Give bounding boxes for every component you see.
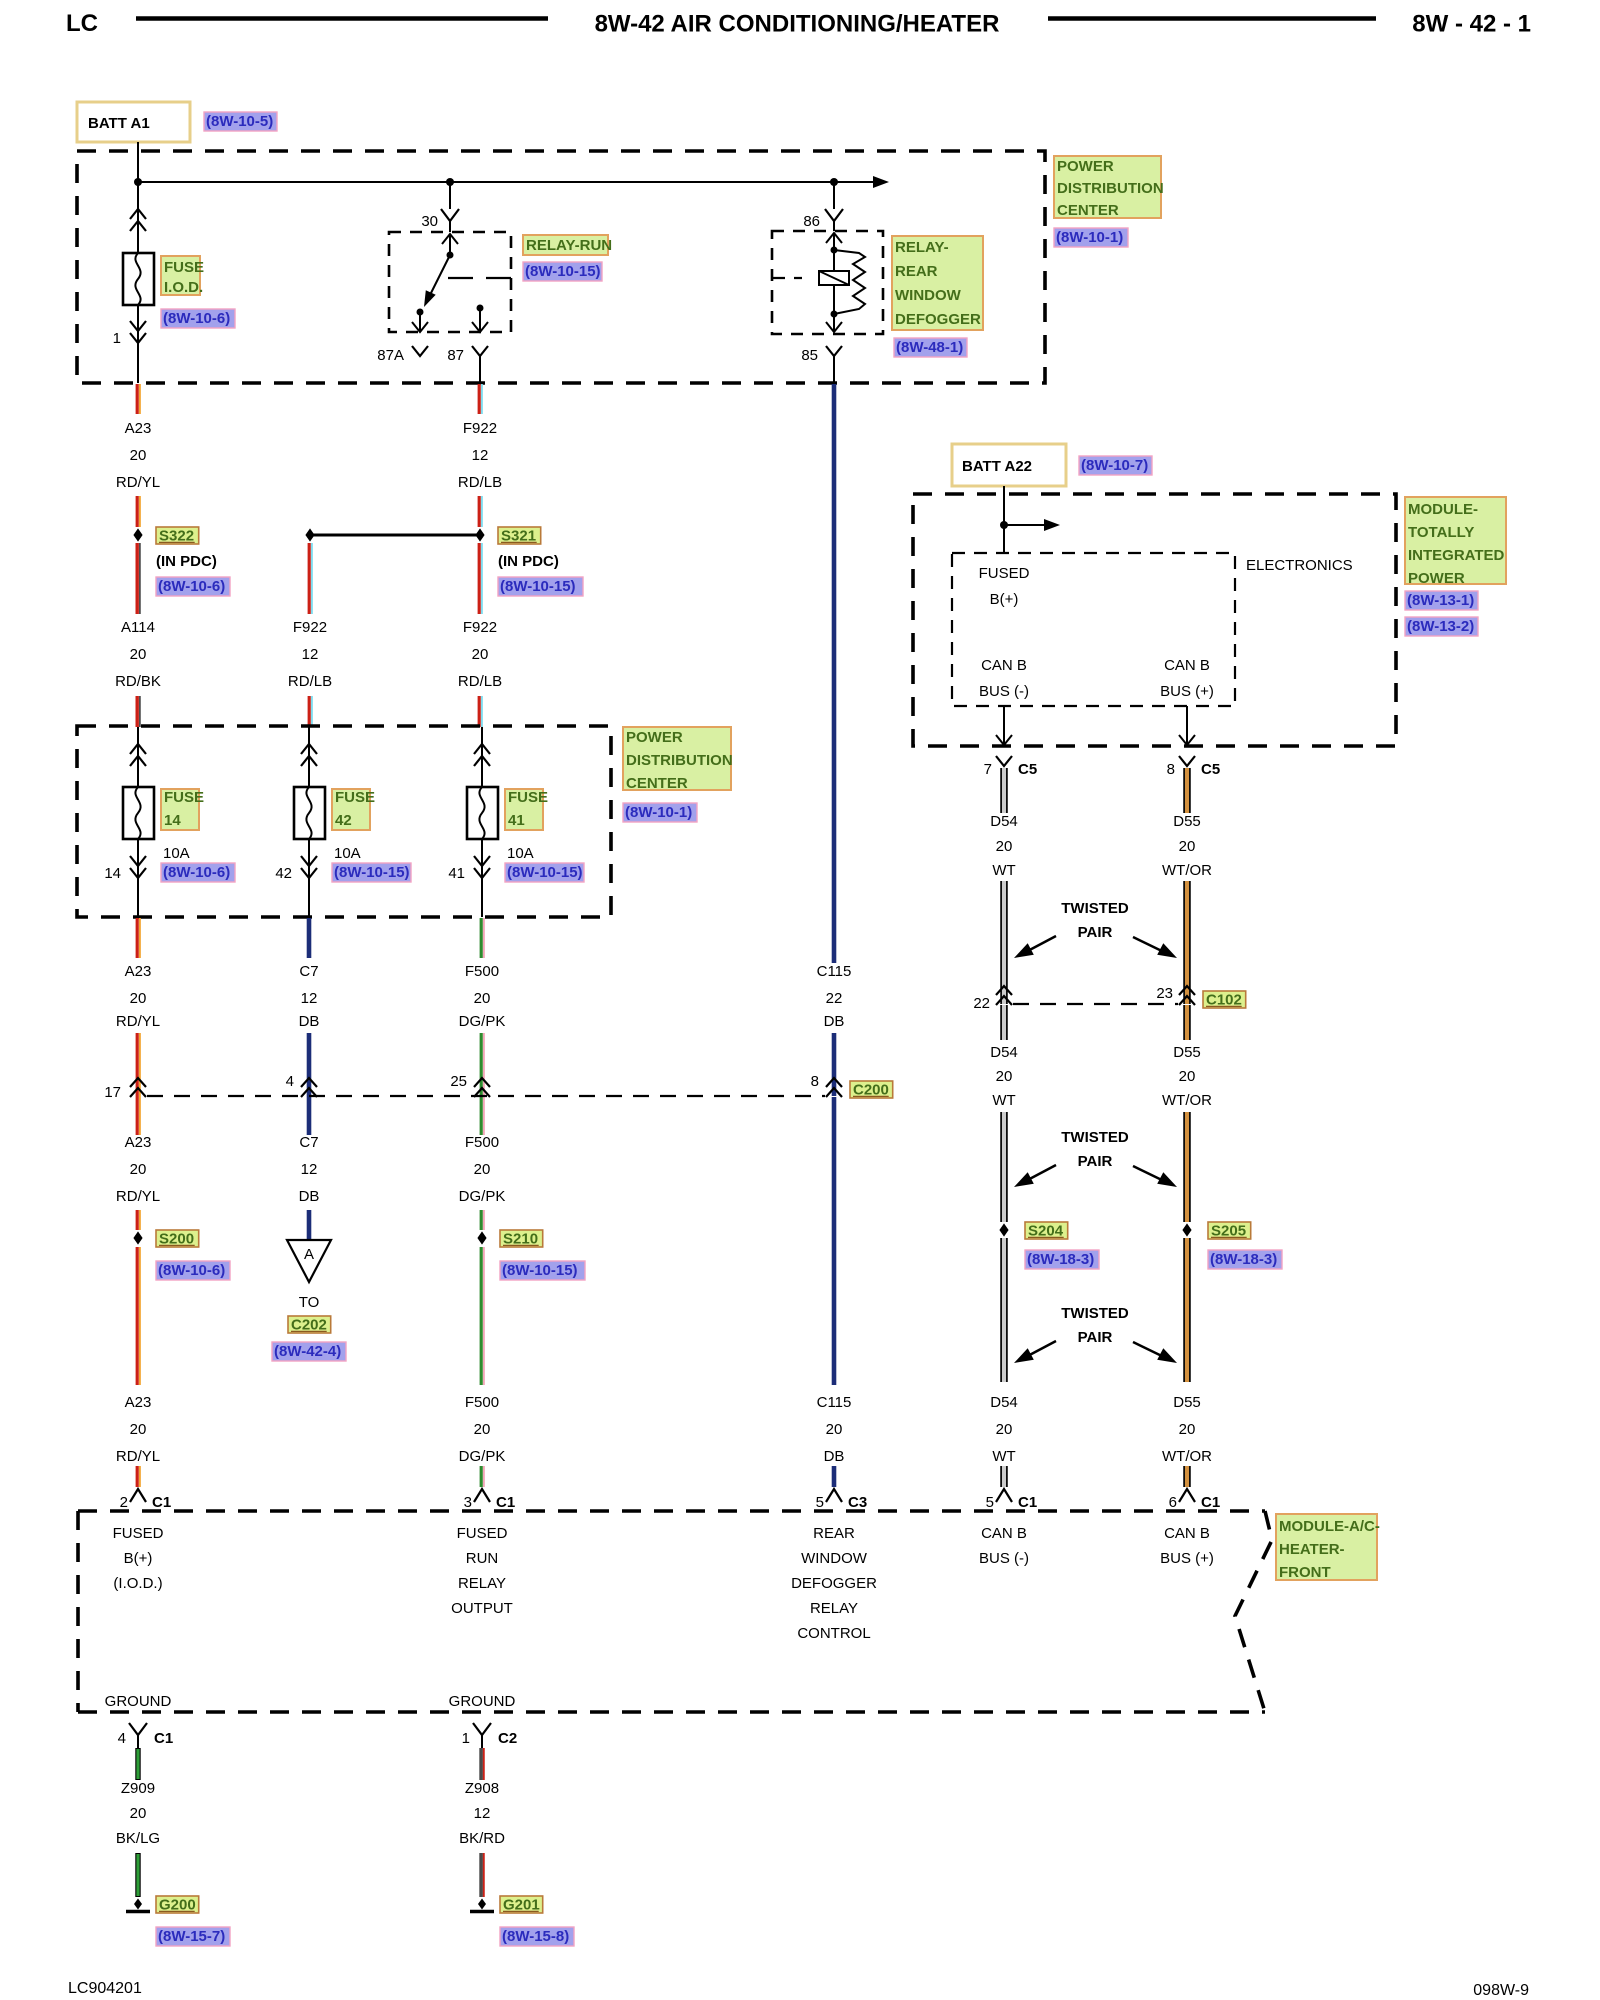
wire D55 20 WT/OR — [1185, 768, 1189, 813]
page ref (8W-10-1) — [623, 803, 697, 822]
wires through C200 — [136, 1033, 139, 1135]
svg-text:8W - 42 - 1: 8W - 42 - 1 — [1412, 11, 1531, 38]
svg-text:F922: F922 — [293, 619, 327, 636]
svg-text:A114: A114 — [121, 619, 155, 636]
svg-text:FUSE: FUSE — [335, 789, 375, 806]
defogger relay pin 85 arrow — [833, 314, 835, 331]
wire BATT A22 into TIPM — [1003, 486, 1005, 553]
wire bus to relay run pin 30 — [449, 182, 451, 209]
wire D54 to S204 — [1002, 1112, 1006, 1222]
relay run switch blade — [428, 255, 450, 299]
fuse 14 — [123, 787, 154, 839]
wire C7 to splice triangle — [307, 1210, 312, 1239]
svg-text:BATT A22: BATT A22 — [962, 458, 1032, 475]
svg-text:LC904201: LC904201 — [68, 1980, 142, 1997]
svg-text:DISTRIBUTION: DISTRIBUTION — [626, 752, 733, 769]
C102 terminal 23 — [1179, 986, 1195, 995]
connector C5 pin 8 — [1179, 756, 1195, 766]
svg-text:POWER: POWER — [1408, 570, 1465, 587]
defogger relay coil — [833, 250, 835, 271]
header rule left — [136, 16, 548, 20]
relay RUN box — [389, 232, 511, 332]
svg-text:20: 20 — [130, 447, 147, 464]
page ref (8W-10-15) — [498, 577, 583, 596]
label POWER DISTRIBUTION CENTER (lower) — [623, 727, 731, 790]
relay run pin 30 arrow — [449, 234, 451, 255]
svg-text:25: 25 — [450, 1073, 467, 1090]
svg-text:5: 5 — [816, 1494, 824, 1511]
connector chevrons below fuse 14 — [130, 856, 146, 866]
connector chevrons above fuse 14 — [130, 744, 146, 754]
svg-text:C7: C7 — [299, 963, 318, 980]
page ref (8W-13-2) — [1405, 617, 1478, 636]
page ref (8W-10-15) — [332, 863, 411, 882]
svg-text:BK/LG: BK/LG — [116, 1830, 160, 1847]
wire D55 to S205 — [1185, 1112, 1189, 1222]
svg-text:10A: 10A — [334, 845, 361, 862]
wire Z908 12 BK/RD — [479, 1748, 483, 1780]
svg-text:PAIR: PAIR — [1078, 924, 1113, 941]
svg-text:(8W-10-15): (8W-10-15) — [502, 1262, 578, 1279]
svg-text:DB: DB — [824, 1013, 845, 1030]
defogger relay coil stub — [772, 277, 802, 279]
relay run pin 87 arrow — [477, 305, 484, 312]
svg-text:30: 30 — [421, 213, 438, 230]
svg-text:POWER: POWER — [1057, 158, 1114, 175]
svg-text:8: 8 — [811, 1073, 819, 1090]
page ref (8W-13-1) — [1405, 591, 1478, 610]
wire C115 20 DB to module — [832, 1097, 837, 1385]
svg-text:20: 20 — [130, 1421, 147, 1438]
svg-text:86: 86 — [803, 213, 820, 230]
svg-text:(8W-10-6): (8W-10-6) — [158, 1262, 225, 1279]
svg-text:12: 12 — [301, 990, 318, 1007]
svg-text:FUSE: FUSE — [508, 789, 548, 806]
wire D54 to module — [1002, 1238, 1006, 1382]
svg-text:23: 23 — [1156, 985, 1173, 1002]
connector chevrons below fuse 41 — [474, 856, 490, 866]
wire out of fuse 42 — [308, 839, 310, 917]
connector chevrons above fuse 41 — [474, 744, 490, 754]
svg-text:(8W-48-1): (8W-48-1) — [896, 339, 963, 356]
svg-text:C1: C1 — [152, 1494, 171, 1511]
svg-text:(8W-10-7): (8W-10-7) — [1081, 457, 1148, 474]
CAN B bus minus arrow out — [1003, 706, 1005, 744]
label C102 — [1203, 991, 1246, 1008]
svg-text:(8W-10-1): (8W-10-1) — [625, 804, 692, 821]
svg-text:1: 1 — [462, 1730, 470, 1747]
svg-text:C3: C3 — [848, 1494, 867, 1511]
C200 terminal 8 — [826, 1078, 842, 1087]
defogger relay resistor — [834, 250, 865, 314]
connector C1 pin 4 — [129, 1723, 147, 1735]
svg-text:F500: F500 — [465, 1394, 499, 1411]
page ref (8W-10-6) — [161, 309, 235, 328]
label MODULE-TOTALLY INTEGRATED POWER — [1405, 497, 1506, 584]
svg-text:WT: WT — [992, 862, 1015, 879]
ground G200 — [134, 1899, 142, 1910]
label FUSE 42 — [332, 789, 370, 830]
label FUSE 41 — [505, 789, 543, 830]
label MODULE-A/C-HEATER-FRONT — [1276, 1514, 1377, 1580]
label C202 — [288, 1316, 331, 1333]
svg-text:CAN B: CAN B — [981, 1525, 1027, 1542]
wire C115 22 DB from relay defogger — [832, 384, 837, 963]
svg-text:20: 20 — [996, 838, 1013, 855]
connector chevrons pin 1 — [130, 321, 146, 331]
svg-text:TO: TO — [299, 1294, 320, 1311]
svg-text:BUS (-): BUS (-) — [979, 683, 1029, 700]
svg-text:RD/LB: RD/LB — [458, 474, 502, 491]
svg-text:DG/PK: DG/PK — [459, 1448, 506, 1465]
svg-text:17: 17 — [104, 1084, 121, 1101]
svg-text:85: 85 — [801, 347, 818, 364]
svg-text:TWISTED: TWISTED — [1061, 1305, 1129, 1322]
svg-text:B(+): B(+) — [124, 1550, 153, 1567]
svg-text:MODULE-: MODULE- — [1408, 501, 1478, 518]
svg-text:(IN PDC): (IN PDC) — [498, 553, 559, 570]
svg-text:A23: A23 — [125, 1134, 152, 1151]
wire fuse IOD to pin 1 — [137, 305, 139, 383]
svg-text:4: 4 — [118, 1730, 126, 1747]
svg-text:GROUND: GROUND — [105, 1693, 172, 1710]
svg-text:RELAY: RELAY — [810, 1600, 858, 1617]
svg-text:REAR: REAR — [895, 263, 938, 280]
defogger relay pin 86 arrow — [833, 233, 835, 250]
C200 terminal 25 — [474, 1078, 490, 1087]
power distribution center box (lower) — [77, 726, 611, 917]
wire F922 to S321 — [478, 496, 481, 527]
svg-text:BATT A1: BATT A1 — [88, 115, 150, 132]
svg-text:(8W-10-5): (8W-10-5) — [206, 113, 273, 130]
svg-text:FUSE: FUSE — [164, 789, 204, 806]
wire F500 20 DG/PK below PDC — [480, 918, 483, 958]
page ref (8W-10-1) — [1054, 228, 1128, 247]
svg-text:42: 42 — [275, 865, 292, 882]
svg-text:A: A — [304, 1246, 314, 1263]
page ref (8W-10-15) — [505, 863, 584, 882]
svg-text:D55: D55 — [1173, 1394, 1201, 1411]
svg-text:MODULE-A/C-: MODULE-A/C- — [1279, 1518, 1380, 1535]
page ref (8W-10-7) — [1079, 456, 1152, 475]
svg-text:(8W-18-3): (8W-18-3) — [1027, 1251, 1094, 1268]
svg-text:FUSED: FUSED — [113, 1525, 164, 1542]
svg-text:C2: C2 — [498, 1730, 517, 1747]
svg-text:20: 20 — [996, 1421, 1013, 1438]
svg-text:12: 12 — [472, 447, 489, 464]
svg-text:GROUND: GROUND — [449, 1693, 516, 1710]
connector C102 line — [1013, 1003, 1178, 1005]
svg-text:22: 22 — [826, 990, 843, 1007]
connector chevrons into PDC — [130, 209, 146, 219]
splice S200 — [133, 1231, 142, 1244]
svg-text:C7: C7 — [299, 1134, 318, 1151]
TIPM electronics box — [952, 553, 1235, 706]
wire into fuse 41 — [481, 727, 483, 787]
svg-text:(8W-10-15): (8W-10-15) — [507, 864, 583, 881]
connector C1 pin 2 — [130, 1489, 146, 1502]
wire Z909 20 BK/LG — [135, 1748, 140, 1780]
svg-text:A23: A23 — [125, 420, 152, 437]
svg-text:C1: C1 — [1201, 1494, 1220, 1511]
module totally integrated power box — [913, 494, 1396, 746]
svg-text:TOTALLY: TOTALLY — [1408, 524, 1474, 541]
svg-text:WINDOW: WINDOW — [895, 287, 962, 304]
wire D54 20 WT — [1002, 768, 1006, 813]
svg-text:F922: F922 — [463, 420, 497, 437]
svg-text:87: 87 — [447, 347, 464, 364]
svg-text:RD/LB: RD/LB — [458, 673, 502, 690]
svg-text:20: 20 — [474, 990, 491, 1007]
splice S322 — [133, 528, 142, 541]
C200 terminal 4 — [301, 1078, 317, 1087]
svg-text:CAN B: CAN B — [1164, 657, 1210, 674]
svg-text:ELECTRONICS: ELECTRONICS — [1246, 557, 1353, 574]
svg-text:20: 20 — [130, 646, 147, 663]
svg-text:DEFOGGER: DEFOGGER — [895, 311, 981, 328]
page ref (8W-42-4) — [272, 1342, 346, 1361]
svg-text:FUSE: FUSE — [164, 259, 204, 276]
relay run coil stub — [448, 277, 511, 279]
svg-text:20: 20 — [130, 1805, 147, 1822]
battery feed BATT A22 — [952, 444, 1066, 486]
svg-text:20: 20 — [130, 1161, 147, 1178]
splice S204 — [999, 1223, 1008, 1236]
connector C1 pin 6 — [1179, 1489, 1195, 1502]
wire A23 to splice S200 — [136, 1210, 139, 1230]
svg-text:7: 7 — [984, 761, 992, 778]
svg-text:(8W-10-15): (8W-10-15) — [500, 578, 576, 595]
svg-text:REAR: REAR — [813, 1525, 855, 1542]
relay REAR WINDOW DEFOGGER box — [772, 231, 883, 334]
svg-text:(8W-10-1): (8W-10-1) — [1056, 229, 1123, 246]
svg-text:(8W-42-4): (8W-42-4) — [274, 1343, 341, 1360]
connector chevrons above fuse 42 — [301, 744, 317, 754]
svg-text:Z909: Z909 — [121, 1780, 155, 1797]
splice S205 — [1182, 1223, 1191, 1236]
header rule right — [1048, 16, 1376, 20]
power distribution center box (top) — [77, 151, 1045, 383]
svg-text:20: 20 — [826, 1421, 843, 1438]
svg-text:WT: WT — [992, 1092, 1015, 1109]
page ref (8W-10-15) — [500, 1261, 585, 1280]
svg-text:C5: C5 — [1018, 761, 1037, 778]
connector pin 86 — [825, 209, 843, 221]
wire C7 12 DB below PDC — [307, 918, 312, 958]
wire A23 to module — [136, 1247, 139, 1385]
svg-text:1: 1 — [113, 330, 121, 347]
svg-text:D54: D54 — [990, 1044, 1018, 1061]
connector C200 line — [147, 1095, 825, 1097]
svg-text:CENTER: CENTER — [1057, 202, 1119, 219]
label FUSE 14 — [161, 789, 199, 830]
battery feed BATT A1 — [77, 102, 190, 142]
page ref (8W-10-6) — [156, 1261, 230, 1280]
svg-text:14: 14 — [104, 865, 121, 882]
page ref (8W-15-7) — [156, 1927, 230, 1946]
wire BATT A1 to bus — [137, 142, 139, 182]
wire out of fuse 41 — [481, 839, 483, 917]
wire A23 20 RD/YL — [136, 384, 139, 414]
fuse I.O.D. — [123, 253, 154, 305]
fuse 42 — [294, 787, 325, 839]
ground G201 — [478, 1899, 486, 1910]
svg-text:20: 20 — [996, 1068, 1013, 1085]
wire out of fuse 14 — [137, 839, 139, 917]
svg-text:CENTER: CENTER — [626, 775, 688, 792]
wire F500 to splice S210 — [480, 1210, 483, 1230]
svg-text:POWER: POWER — [626, 729, 683, 746]
svg-text:F500: F500 — [465, 963, 499, 980]
svg-text:BUS (+): BUS (+) — [1160, 1550, 1214, 1567]
svg-text:3: 3 — [464, 1494, 472, 1511]
svg-text:BUS (+): BUS (+) — [1160, 683, 1214, 700]
svg-text:TWISTED: TWISTED — [1061, 900, 1129, 917]
svg-text:D55: D55 — [1173, 1044, 1201, 1061]
connector C2 pin 1 — [473, 1723, 491, 1735]
wire F922 20 RD/LB — [478, 543, 481, 614]
svg-text:D54: D54 — [990, 1394, 1018, 1411]
svg-text:4: 4 — [286, 1073, 294, 1090]
wire D54 below C102 — [1002, 1005, 1006, 1040]
connector C1 pin 3 — [474, 1489, 490, 1502]
CAN B bus plus arrow out — [1186, 706, 1188, 744]
page ref (8W-18-3) — [1025, 1250, 1099, 1269]
svg-text:DEFOGGER: DEFOGGER — [791, 1575, 877, 1592]
svg-text:BK/RD: BK/RD — [459, 1830, 505, 1847]
svg-text:8W-42 AIR CONDITIONING/HEATER: 8W-42 AIR CONDITIONING/HEATER — [595, 11, 1000, 38]
label FUSE I.O.D. — [161, 256, 200, 295]
svg-text:TWISTED: TWISTED — [1061, 1129, 1129, 1146]
connector C1 pin 5 — [996, 1489, 1012, 1502]
svg-text:RD/YL: RD/YL — [116, 1013, 160, 1030]
svg-text:RD/YL: RD/YL — [116, 474, 160, 491]
svg-text:DB: DB — [299, 1013, 320, 1030]
svg-text:12: 12 — [474, 1805, 491, 1822]
label POWER DISTRIBUTION CENTER (top) — [1054, 156, 1161, 218]
svg-text:RELAY: RELAY — [458, 1575, 506, 1592]
svg-text:(8W-13-1): (8W-13-1) — [1407, 592, 1474, 609]
svg-text:8: 8 — [1167, 761, 1175, 778]
label RELAY-REAR WINDOW DEFOGGER — [892, 236, 983, 330]
connector C5 pin 7 — [996, 756, 1012, 766]
svg-text:PAIR: PAIR — [1078, 1329, 1113, 1346]
svg-text:CONTROL: CONTROL — [797, 1625, 870, 1642]
svg-text:C115: C115 — [817, 1394, 852, 1411]
junction node bus/relay defogger — [830, 178, 838, 186]
svg-text:6: 6 — [1169, 1494, 1177, 1511]
svg-text:20: 20 — [1179, 1068, 1196, 1085]
svg-text:RELAY-: RELAY- — [895, 239, 949, 256]
junction node bus/relay run — [446, 178, 454, 186]
wire F922 12 RD/LB — [478, 384, 481, 414]
svg-text:RD/YL: RD/YL — [116, 1448, 160, 1465]
svg-text:BUS (-): BUS (-) — [979, 1550, 1029, 1567]
svg-text:14: 14 — [164, 812, 181, 829]
svg-text:OUTPUT: OUTPUT — [451, 1600, 513, 1617]
splice S210 — [477, 1231, 486, 1244]
svg-text:12: 12 — [301, 1161, 318, 1178]
wire F922 12 RD/LB mid — [308, 543, 311, 614]
svg-text:(8W-10-6): (8W-10-6) — [163, 864, 230, 881]
svg-text:RUN: RUN — [466, 1550, 499, 1567]
svg-text:RD/YL: RD/YL — [116, 1188, 160, 1205]
svg-text:CAN B: CAN B — [981, 657, 1027, 674]
wire A114 20 RD/BK — [135, 543, 138, 614]
module A/C heater front box — [78, 1509, 1265, 1513]
svg-text:DG/PK: DG/PK — [459, 1013, 506, 1030]
svg-text:10A: 10A — [163, 845, 190, 862]
wire D55 below C102 — [1185, 1005, 1189, 1040]
svg-text:A23: A23 — [125, 1394, 152, 1411]
svg-text:F922: F922 — [463, 619, 497, 636]
svg-text:(8W-10-15): (8W-10-15) — [525, 263, 601, 280]
connector chevrons below fuse 42 — [301, 856, 317, 866]
page ref (8W-10-6) — [161, 863, 235, 882]
svg-text:20: 20 — [474, 1421, 491, 1438]
page ref (8W-18-3) — [1208, 1250, 1282, 1269]
svg-text:20: 20 — [1179, 1421, 1196, 1438]
wire into fuse 14 — [137, 727, 139, 787]
svg-text:WT/OR: WT/OR — [1162, 862, 1212, 879]
svg-text:RD/LB: RD/LB — [288, 673, 332, 690]
svg-text:DG/PK: DG/PK — [459, 1188, 506, 1205]
wire bus to fuse IOD — [137, 182, 139, 253]
junction node bus/fuse IOD — [134, 178, 142, 186]
svg-text:10A: 10A — [507, 845, 534, 862]
C200 terminal 17 — [130, 1078, 146, 1087]
svg-text:2: 2 — [120, 1494, 128, 1511]
wire into fuse 42 — [308, 727, 310, 787]
label RELAY-RUN — [523, 235, 608, 255]
svg-text:(8W-10-15): (8W-10-15) — [334, 864, 410, 881]
svg-text:F500: F500 — [465, 1134, 499, 1151]
svg-text:WINDOW: WINDOW — [801, 1550, 868, 1567]
svg-text:C1: C1 — [496, 1494, 515, 1511]
svg-text:(8W-15-8): (8W-15-8) — [502, 1928, 569, 1945]
svg-text:41: 41 — [508, 812, 525, 829]
svg-text:41: 41 — [448, 865, 465, 882]
page ref (8W-10-5) — [204, 112, 277, 131]
svg-text:D55: D55 — [1173, 813, 1201, 830]
svg-text:FUSED: FUSED — [457, 1525, 508, 1542]
svg-text:B(+): B(+) — [990, 591, 1019, 608]
splice S321 — [475, 528, 484, 541]
svg-text:C1: C1 — [154, 1730, 173, 1747]
wire D54 to C102 — [1002, 881, 1006, 1004]
relay run pin 87A arrow — [419, 312, 421, 331]
svg-text:FRONT: FRONT — [1279, 1564, 1331, 1581]
svg-text:(8W-18-3): (8W-18-3) — [1210, 1251, 1277, 1268]
svg-text:I.O.D.: I.O.D. — [164, 279, 203, 296]
wire F500 to module — [480, 1247, 483, 1385]
svg-text:22: 22 — [973, 995, 990, 1012]
page ref (8W-10-15) — [523, 262, 602, 281]
svg-text:5: 5 — [986, 1494, 994, 1511]
svg-text:20: 20 — [472, 646, 489, 663]
svg-text:CAN B: CAN B — [1164, 1525, 1210, 1542]
svg-text:C5: C5 — [1201, 761, 1220, 778]
svg-text:20: 20 — [474, 1161, 491, 1178]
svg-text:C1: C1 — [1018, 1494, 1037, 1511]
TIPM B+ arrow — [1004, 524, 1046, 526]
wire D55 to module — [1185, 1238, 1189, 1382]
svg-text:42: 42 — [335, 812, 352, 829]
svg-text:098W-9: 098W-9 — [1473, 1982, 1529, 1999]
wire A114 into PDC — [135, 696, 138, 727]
C102 terminal 22 — [996, 986, 1012, 995]
svg-text:(8W-15-7): (8W-15-7) — [158, 1928, 225, 1945]
